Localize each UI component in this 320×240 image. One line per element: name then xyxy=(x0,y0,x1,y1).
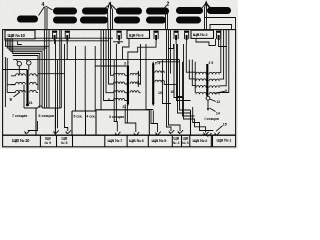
svg-text:3 секция: 3 секция xyxy=(109,115,124,119)
svg-text:21: 21 xyxy=(123,105,127,109)
svg-text:№ 4: № 4 xyxy=(173,141,180,145)
svg-text:4 сек.: 4 сек. xyxy=(87,115,96,119)
svg-text:ЩВ № 7: ЩВ № 7 xyxy=(108,138,124,143)
svg-text:14: 14 xyxy=(216,111,220,115)
svg-text:7 секция: 7 секция xyxy=(12,114,27,118)
svg-text:ЩВ № 2: ЩВ № 2 xyxy=(193,138,209,143)
svg-text:9: 9 xyxy=(225,89,227,93)
svg-text:ЩВ: ЩВ xyxy=(62,137,68,141)
svg-text:№ 9: № 9 xyxy=(45,141,52,145)
svg-text:2: 2 xyxy=(167,2,170,8)
svg-text:3 7: 3 7 xyxy=(124,62,129,66)
svg-text:ЩВ № 1: ЩВ № 1 xyxy=(217,138,233,143)
svg-text:ЩВ № 6: ЩВ № 6 xyxy=(129,138,145,143)
svg-text:21: 21 xyxy=(29,101,33,105)
svg-text:ЩВ № 10: ЩВ № 10 xyxy=(8,33,26,38)
svg-text:№ 3: № 3 xyxy=(182,141,189,145)
svg-text:ЩВ: ЩВ xyxy=(183,137,189,141)
svg-text:ЩВ: ЩВ xyxy=(45,137,51,141)
svg-text:5 сек.: 5 сек. xyxy=(74,115,83,119)
svg-text:ЩВ: ЩВ xyxy=(173,137,179,141)
svg-text:10: 10 xyxy=(158,91,162,95)
svg-text:6 секция: 6 секция xyxy=(39,114,54,118)
svg-text:ЩВ № 5: ЩВ № 5 xyxy=(152,138,168,143)
svg-text:15: 15 xyxy=(223,122,227,126)
svg-text:I секция: I секция xyxy=(205,117,219,121)
svg-text:ЩВ № 6: ЩВ № 6 xyxy=(129,32,145,37)
svg-text:ЩВ № 2: ЩВ № 2 xyxy=(193,32,209,37)
svg-text:ЩВ № 10: ЩВ № 10 xyxy=(12,138,30,143)
svg-text:№ 8: № 8 xyxy=(61,141,68,145)
svg-text:12: 12 xyxy=(216,100,220,104)
svg-text:5: 5 xyxy=(108,98,110,102)
svg-text:2 5: 2 5 xyxy=(209,61,214,65)
